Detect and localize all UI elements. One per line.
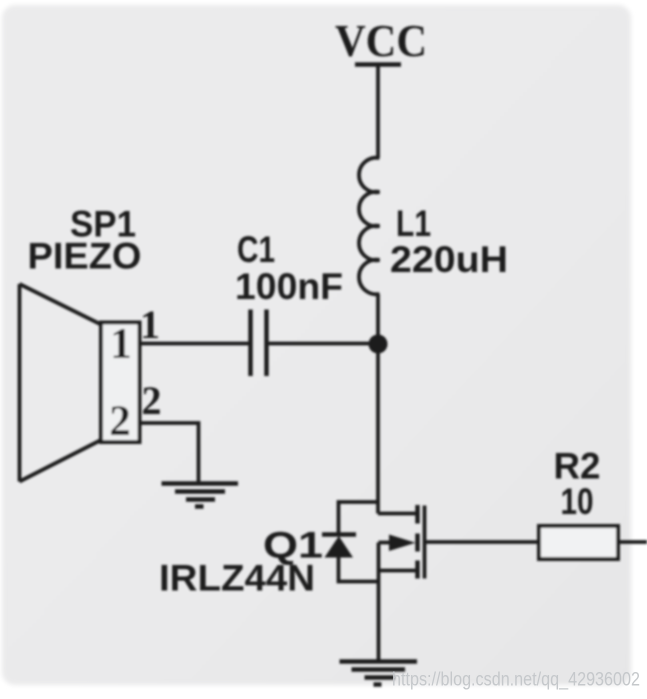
svg-text:https://blog.csdn.net/qq_42936: https://blog.csdn.net/qq_42936002 <box>392 669 640 691</box>
Q1 body diode cathode bar <box>322 532 356 537</box>
Q1 channel bars <box>415 505 420 579</box>
svg-text:L1: L1 <box>396 203 431 244</box>
speaker SP1 body <box>101 323 140 443</box>
wire L1 to node <box>376 294 380 344</box>
svg-text:10: 10 <box>561 481 594 522</box>
svg-text:1: 1 <box>110 321 132 368</box>
capacitor C1 plates <box>248 310 253 377</box>
Q1 body diode branch bottom <box>339 556 379 582</box>
wire C1 to SP1 pin1 <box>141 342 249 346</box>
Q1 source lead <box>379 569 418 573</box>
VCC power symbol <box>355 62 401 67</box>
svg-text:VCC: VCC <box>335 15 427 66</box>
svg-text:100nF: 100nF <box>235 266 343 307</box>
speaker SP1 horn <box>20 284 102 482</box>
wire VCC to L1 <box>376 65 380 159</box>
svg-text:2: 2 <box>142 378 162 423</box>
svg-text:220uH: 220uH <box>390 239 508 280</box>
resistor R2 box <box>539 526 618 559</box>
ground (piezo) <box>162 484 239 507</box>
inductor L1 <box>359 158 380 295</box>
svg-text:C1: C1 <box>237 229 275 270</box>
svg-text:IRLZ44N: IRLZ44N <box>159 558 315 599</box>
Q1 body arrow <box>389 535 416 552</box>
Q1 drain lead <box>378 512 418 516</box>
Q1 body arrow line <box>379 541 391 545</box>
Q1 source vertical <box>377 543 381 662</box>
ground (source) <box>340 662 418 685</box>
svg-text:1: 1 <box>140 302 160 347</box>
Q1 gate bar <box>423 506 427 579</box>
wire SP1 pin2 <box>141 423 199 482</box>
Q1 body diode triangle <box>325 536 354 558</box>
Q1 body diode branch top <box>339 502 379 534</box>
wire node to Q1 drain <box>376 344 380 514</box>
wire Q1 gate to R2 <box>426 540 539 544</box>
wire R2 to edge <box>618 540 647 544</box>
node junction dot <box>369 335 388 354</box>
wire node to C1 <box>268 342 378 346</box>
svg-text:2: 2 <box>109 398 131 445</box>
svg-text:PIEZO: PIEZO <box>28 236 142 277</box>
